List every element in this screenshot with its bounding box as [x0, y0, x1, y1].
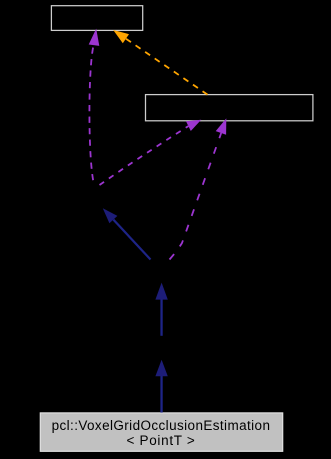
svg-text:< PointT >: < PointT > — [126, 433, 195, 448]
svg-text:pcl::VoxelGridOcclusionEstimat: pcl::VoxelGridOcclusionEstimation — [52, 418, 271, 433]
